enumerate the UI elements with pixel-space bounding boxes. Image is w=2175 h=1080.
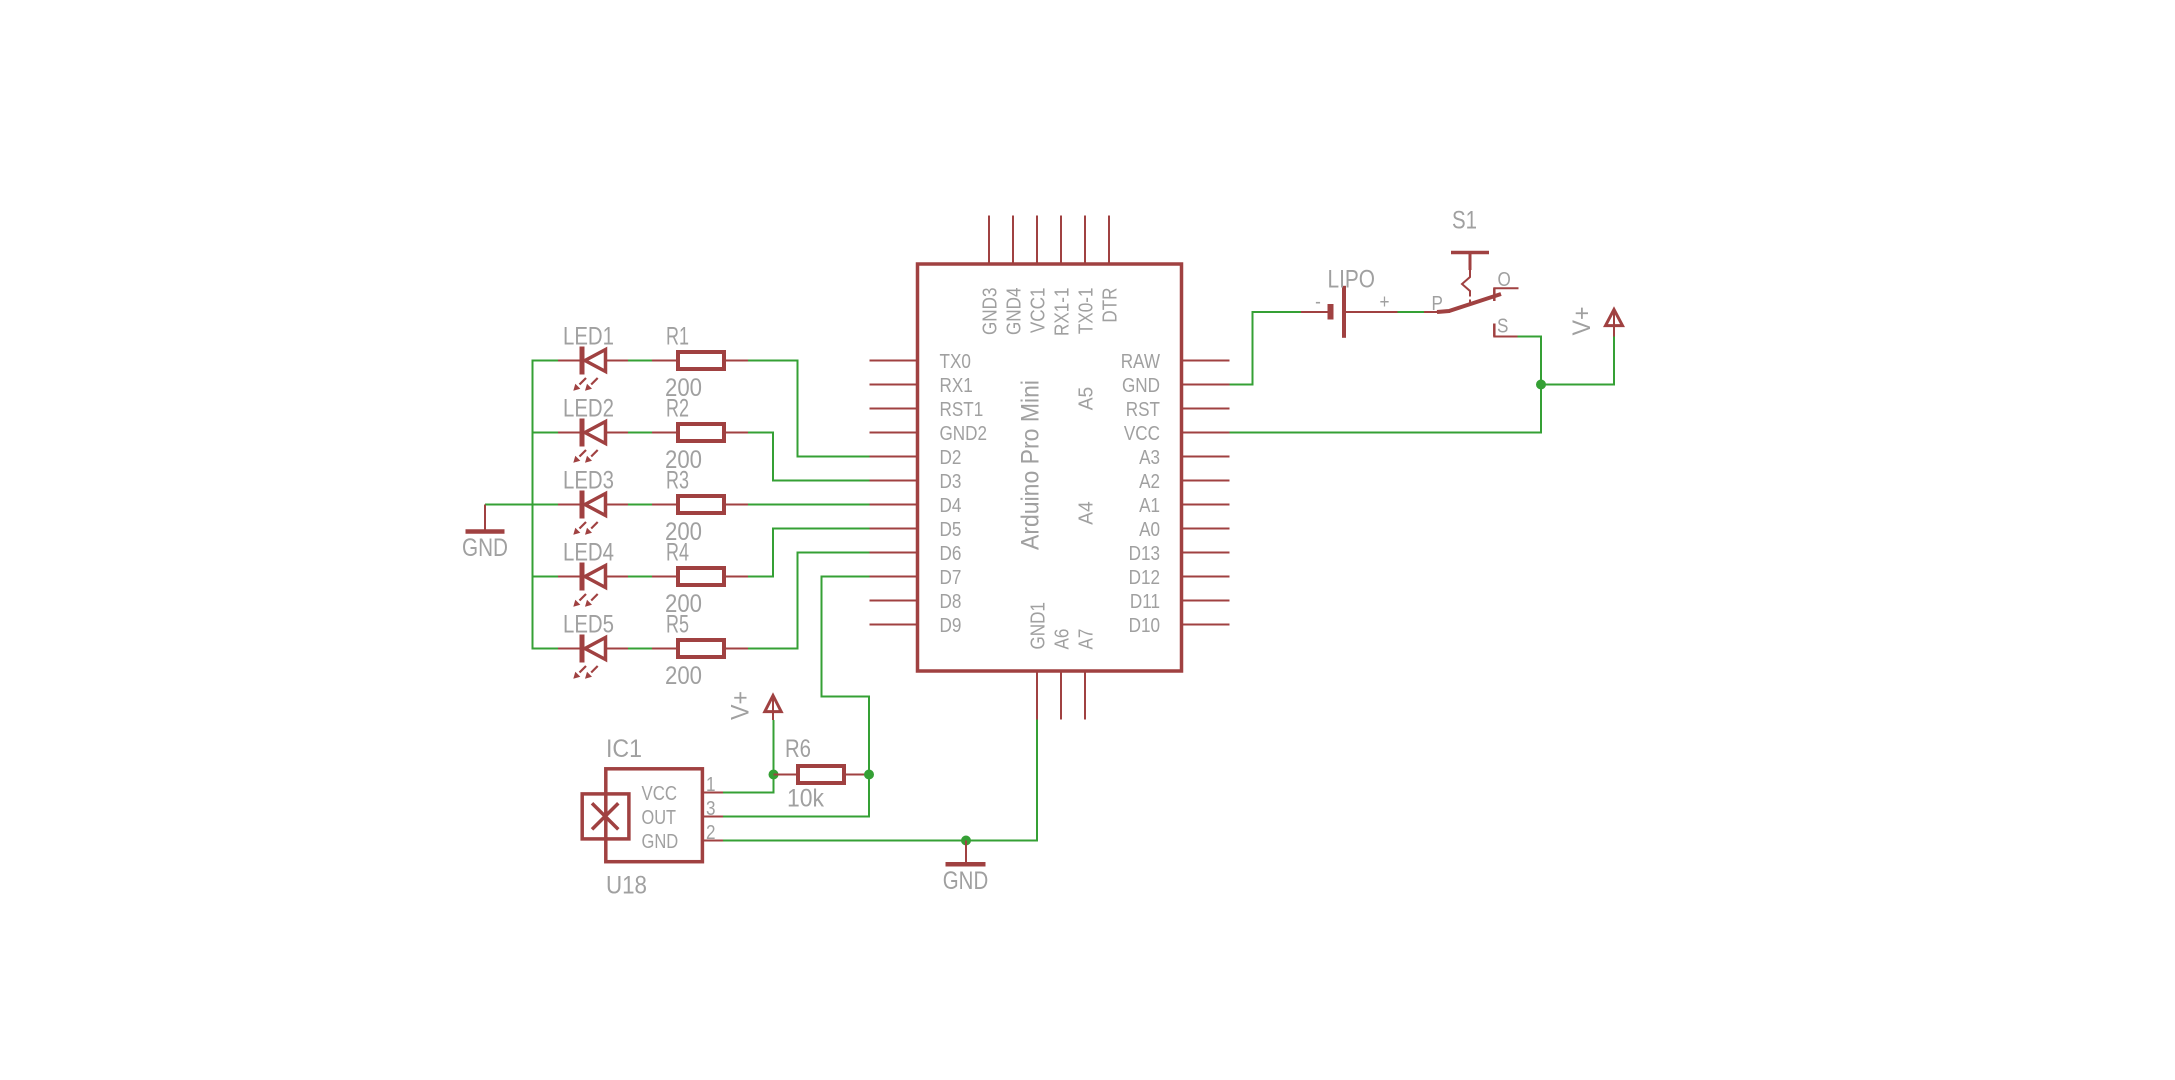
svg-text:D11: D11 [1130,591,1160,613]
pin label GND2 [940,423,988,445]
resistor R1 [652,352,748,369]
svg-text:D9: D9 [940,615,962,637]
svg-text:D13: D13 [1129,543,1160,565]
value 200 of R3 [665,518,702,546]
pin label DTR [1099,288,1121,323]
svg-text:RAW: RAW [1121,351,1160,373]
svg-text:R4: R4 [666,539,689,567]
pin GND (right stub) [1182,384,1230,386]
svg-text:2: 2 [706,822,716,844]
wire bus to LED1 [532,360,559,362]
pin label VCC (IC1) [642,783,678,805]
svg-text:LED5: LED5 [563,611,614,639]
pin label A6 [1051,629,1073,650]
supply V+ (right) [1606,310,1623,337]
pin label D2 [940,447,962,469]
svg-text:D5: D5 [940,519,962,541]
svg-text:RX1-1: RX1-1 [1051,288,1073,337]
svg-text:LED2: LED2 [563,395,614,423]
svg-text:D7: D7 [940,567,962,589]
pin number 2 (IC1) [706,822,716,844]
resistor R2 [652,424,748,441]
pin D4 (left stub) [870,504,918,506]
pin A6 (bottom stub) [1060,671,1062,720]
svg-text:GND1: GND1 [1027,602,1049,650]
wire LED2 to R2 [628,432,652,434]
pin label D11 [1130,591,1160,613]
pin label D12 [1129,567,1160,589]
svg-text:LED1: LED1 [563,323,614,351]
label Arduino Pro Mini [1017,380,1045,550]
wire R3 to D4 [748,504,870,506]
switch S1 [1424,253,1519,337]
svg-text:V+: V+ [727,691,755,720]
wire LED3 to R3 [628,504,652,506]
wire LED4 to R4 [628,576,652,578]
ground GND (left) [466,505,505,532]
svg-text:A1: A1 [1139,495,1160,517]
value 10k of R6 [787,785,824,813]
svg-text:VCC1: VCC1 [1027,288,1049,334]
pin label RX1-1 [1051,288,1073,337]
svg-text:S: S [1497,316,1508,338]
label V+ (right) [1568,307,1596,336]
wire R1 to D2 [748,361,870,457]
pin RAW (right stub) [1182,360,1230,362]
wire GND tap to bus [485,504,533,506]
label LIPO [1328,266,1376,294]
pin label D10 [1129,615,1160,637]
label IC1 [606,735,642,763]
svg-text:O: O [1498,269,1511,291]
svg-text:D4: D4 [940,495,962,517]
resistor R4 [652,568,748,585]
label LED3 [563,467,614,495]
pin label A0 [1139,519,1160,541]
svg-text:GND3: GND3 [979,288,1001,336]
pin D13 (right stub) [1182,552,1230,554]
label LED4 [563,539,614,567]
wire R2 to D3 [748,433,870,481]
pin label D6 [940,543,962,565]
pin VCC (right stub) [1182,432,1230,434]
pin number 3 (IC1) [706,798,716,820]
svg-text:3: 3 [706,798,716,820]
LED LED3 [558,491,628,535]
node junction (R6 right / OUT) [864,770,874,780]
svg-text:OUT: OUT [642,807,677,829]
pin label RX1 [940,375,973,397]
svg-text:VCC: VCC [642,783,678,805]
label O (switch throw) [1498,269,1511,291]
pin RST (right stub) [1182,408,1230,410]
label R3 [666,467,689,495]
label S1 [1452,207,1477,235]
svg-text:U18: U18 [606,872,647,900]
pin label D13 [1129,543,1160,565]
pin RX1-1 (top stub) [1060,216,1062,265]
pin label GND1 [1027,602,1049,650]
value 200 of R1 [665,374,702,402]
LED LED4 [558,563,628,607]
LED LED2 [558,419,628,463]
wire GND pin to battery minus [1230,312,1302,385]
svg-text:V+: V+ [1568,307,1596,336]
svg-text:D10: D10 [1129,615,1160,637]
pin A0 (right stub) [1182,528,1230,530]
svg-text:1: 1 [706,774,716,796]
resistor R3 [652,496,748,513]
pin D12 (right stub) [1182,576,1230,578]
pin GND4 (top stub) [1012,216,1014,265]
pin D9 (left stub) [870,624,918,626]
pin D7 (left stub) [870,576,918,578]
battery LIPO [1301,286,1398,338]
label R6 [785,735,811,763]
label LED1 [563,323,614,351]
pin label D7 [940,567,962,589]
svg-text:DTR: DTR [1099,288,1121,323]
pin label D8 [940,591,962,613]
svg-text:RST1: RST1 [940,399,984,421]
pin label A5 [1076,387,1098,411]
svg-text:P: P [1432,293,1443,315]
pin D8 (left stub) [870,600,918,602]
pin D6 (left stub) [870,552,918,554]
wire bus to LED2 [532,432,559,434]
label LED5 [563,611,614,639]
pin D5 (left stub) [870,528,918,530]
wire battery plus to switch P [1398,311,1425,313]
label R2 [666,395,689,423]
label LED2 [563,395,614,423]
pin label A4 [1076,501,1098,525]
svg-text:D12: D12 [1129,567,1160,589]
pin label VCC1 [1027,288,1049,334]
svg-text:A6: A6 [1051,629,1073,650]
wire bus to LED4 [532,576,559,578]
svg-text:Arduino Pro Mini: Arduino Pro Mini [1017,380,1045,550]
pin label TX0 [940,351,971,373]
wire LED5 to R5 [628,648,652,650]
wire R5 to D6 [748,553,870,649]
svg-text:A4: A4 [1076,501,1098,525]
pin label RST [1126,399,1160,421]
pin label D4 [940,495,962,517]
svg-text:D3: D3 [940,471,962,493]
svg-text:TX0: TX0 [940,351,971,373]
wire R6 node to V+ symbol [773,720,775,775]
IC U? Arduino Pro Mini outline [918,264,1182,671]
label - (battery minus) [1315,291,1321,313]
label GND (left) [462,534,508,562]
pin D2 (left stub) [870,456,918,458]
node junction (R6 left) [769,770,779,780]
pin TX0 (left stub) [870,360,918,362]
svg-text:A3: A3 [1139,447,1160,469]
wire LED anode bus (vertical) [532,360,534,650]
svg-text:IC1: IC1 [606,735,642,763]
pin label D9 [940,615,962,637]
svg-text:D2: D2 [940,447,962,469]
svg-text:R2: R2 [666,395,689,423]
pin GND1 (bottom stub) [1036,671,1038,720]
svg-text:D6: D6 [940,543,962,565]
pin label A1 [1139,495,1160,517]
pin D3 (left stub) [870,480,918,482]
IC IC1 (photo sensor) [582,769,723,862]
pin VCC1 (top stub) [1036,216,1038,265]
pin label D5 [940,519,962,541]
svg-text:GND: GND [1122,375,1160,397]
pin label OUT (IC1) [642,807,677,829]
wire bus to LED5 [532,648,559,650]
svg-text:GND: GND [462,534,508,562]
value 200 of R2 [665,446,702,474]
label GND (bottom) [943,867,988,895]
label S (switch throw) [1497,316,1508,338]
svg-text:+: + [1380,292,1390,314]
pin label GND [1122,375,1160,397]
label R5 [666,611,689,639]
svg-text:TX0-1: TX0-1 [1075,288,1097,335]
LED LED1 [558,347,628,391]
label U18 [606,872,647,900]
wire D7 to OUT net [723,577,870,817]
svg-text:GND: GND [943,867,988,895]
pin label A7 [1075,629,1097,650]
svg-text:R6: R6 [785,735,811,763]
pin RST1 (left stub) [870,408,918,410]
pin A2 (right stub) [1182,480,1230,482]
pin TX0-1 (top stub) [1084,216,1086,265]
pin label GND (IC1) [642,831,679,853]
pin RX1 (left stub) [870,384,918,386]
ground GND (bottom) [946,841,986,865]
pin label D3 [940,471,962,493]
resistor R5 [652,640,748,657]
value 200 of R4 [665,590,702,618]
label P (switch pole) [1432,293,1443,315]
svg-text:GND: GND [642,831,679,853]
svg-text:A0: A0 [1139,519,1160,541]
svg-text:A5: A5 [1076,387,1098,411]
svg-text:R3: R3 [666,467,689,495]
svg-text:A2: A2 [1139,471,1160,493]
label R4 [666,539,689,567]
pin label A3 [1139,447,1160,469]
pin label RST1 [940,399,984,421]
wire junction to V+ symbol [1541,337,1614,385]
node junction (GND net) [961,836,971,846]
pin label RAW [1121,351,1160,373]
label R1 [666,323,689,351]
svg-text:A7: A7 [1075,629,1097,650]
wire junction to VCC pin [1230,385,1542,433]
label + (battery plus) [1380,292,1390,314]
svg-text:GND4: GND4 [1003,288,1025,336]
pin A3 (right stub) [1182,456,1230,458]
pin A1 (right stub) [1182,504,1230,506]
wire LED1 to R1 [628,360,652,362]
pin number 1 (IC1) [706,774,716,796]
pin A7 (bottom stub) [1084,671,1086,720]
svg-text:VCC: VCC [1124,423,1160,445]
svg-text:LED3: LED3 [563,467,614,495]
svg-text:R1: R1 [666,323,689,351]
svg-text:10k: 10k [787,785,824,813]
svg-text:RST: RST [1126,399,1160,421]
pin label VCC [1124,423,1160,445]
LED LED5 [558,635,628,679]
wire IC1 pin2 to GND1 [723,720,1037,841]
wire R4 to D5 [748,529,870,577]
pin label GND3 [979,288,1001,336]
pin D11 (right stub) [1182,600,1230,602]
svg-text:RX1: RX1 [940,375,973,397]
wire switch S to V+ node [1518,337,1542,385]
pin label TX0-1 [1075,288,1097,335]
value 200 of R5 [665,662,702,690]
wire bus to LED3 [532,504,559,506]
label V+ (above R6) [727,691,755,720]
pin GND3 (top stub) [988,216,990,265]
pin DTR (top stub) [1108,216,1110,265]
pin D10 (right stub) [1182,624,1230,626]
pin label A2 [1139,471,1160,493]
svg-text:LIPO: LIPO [1328,266,1376,294]
pin GND2 (left stub) [870,432,918,434]
svg-text:-: - [1315,291,1321,313]
wire IC1 pin1 to R6 node [723,775,774,793]
svg-text:200: 200 [665,662,702,690]
node junction (V+ net) [1536,380,1546,390]
resistor R6 [774,766,870,783]
svg-text:D8: D8 [940,591,962,613]
svg-text:GND2: GND2 [940,423,988,445]
pin label GND4 [1003,288,1025,336]
svg-text:LED4: LED4 [563,539,614,567]
supply V+ (above R6) [765,696,781,721]
svg-text:R5: R5 [666,611,689,639]
svg-text:S1: S1 [1452,207,1477,235]
